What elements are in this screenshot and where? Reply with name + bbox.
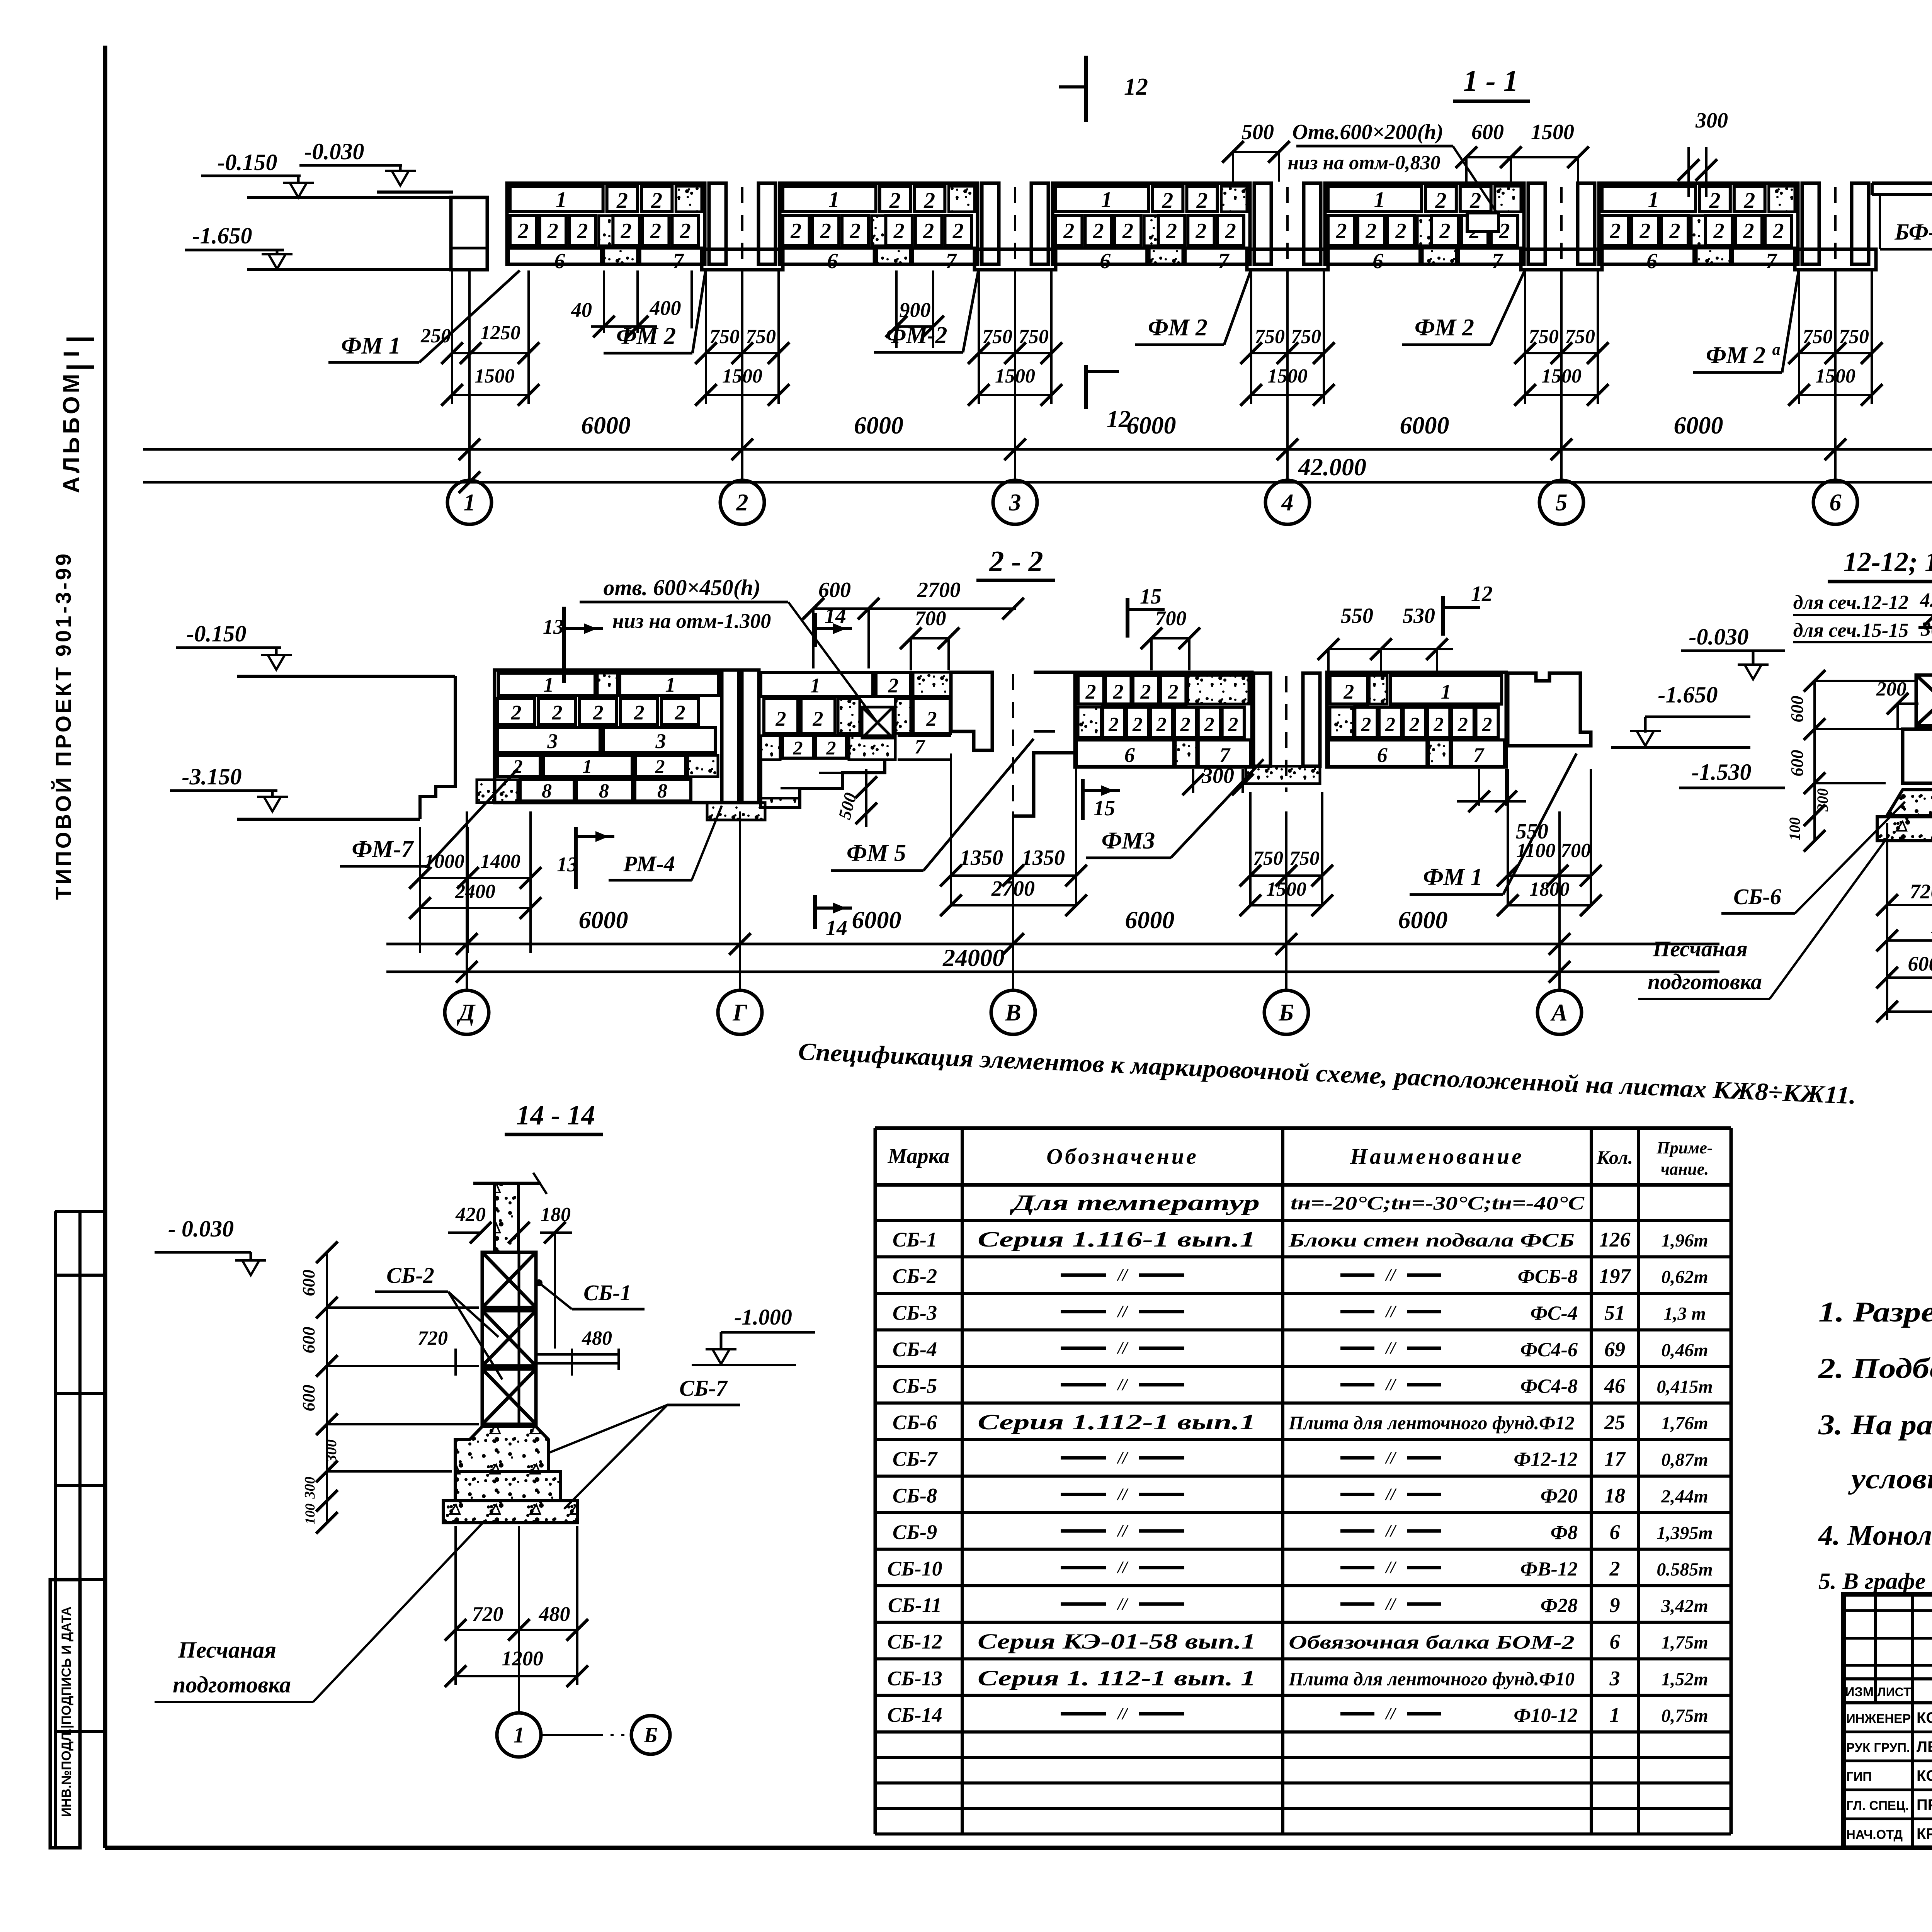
svg-text:2: 2 xyxy=(849,219,861,243)
blocks X (14-14) xyxy=(482,1252,536,1308)
svg-text:ФСБ-8: ФСБ-8 xyxy=(1518,1266,1578,1288)
svg-text:24000: 24000 xyxy=(942,944,1005,971)
svg-text:0,62т: 0,62т xyxy=(1661,1267,1708,1287)
column stub (14-14) xyxy=(495,1183,519,1252)
svg-text:3: 3 xyxy=(547,730,558,753)
svg-text:-3.150: -3.150 xyxy=(182,764,242,789)
svg-text:3. На разрезах 1-1; 2-2 букв: 3. На разрезах 1-1; 2-2 буквенные индекс… xyxy=(1818,1409,1932,1441)
svg-text:1,395т: 1,395т xyxy=(1656,1523,1713,1543)
dim 900 under bay 2-3 xyxy=(895,270,898,348)
svg-text:2700: 2700 xyxy=(917,578,961,602)
block SB-2 (12-12) xyxy=(1903,729,1932,783)
svg-text:750: 750 xyxy=(1253,847,1283,869)
dim chain 1100-700-1800 at axis A xyxy=(1507,769,1509,905)
svg-text:7: 7 xyxy=(1473,743,1485,767)
svg-text:ФМ 2: ФМ 2 xyxy=(616,323,676,349)
opening rect in bay 4-5 xyxy=(1467,213,1498,231)
dimension line 42.000 xyxy=(143,481,1932,484)
axis line В (2-2) xyxy=(1012,811,1014,990)
pier footing pad at axis x=4041 xyxy=(1521,249,1602,270)
svg-text:СБ-1: СБ-1 xyxy=(583,1280,631,1305)
svg-text:750: 750 xyxy=(982,326,1012,348)
pier at axis B (section 2-2) xyxy=(1253,673,1270,766)
svg-text:750: 750 xyxy=(1289,847,1320,869)
svg-text:51: 51 xyxy=(1604,1301,1625,1324)
svg-text://: // xyxy=(1385,1265,1397,1284)
svg-text:Д: Д xyxy=(457,1000,476,1026)
title block signature rows xyxy=(1844,1731,1932,1733)
footing slab 6 xyxy=(1600,248,1694,264)
svg-text:2: 2 xyxy=(621,219,632,243)
svg-text:12: 12 xyxy=(1471,582,1493,606)
svg-text:4. Монолитные участки стен: 4. Монолитные участки стен выполнять из … xyxy=(1818,1520,1932,1551)
dim chain 250-1250-1500 at axis 1 xyxy=(451,270,453,404)
svg-text:2: 2 xyxy=(889,188,901,213)
svg-text:6000: 6000 xyxy=(579,906,628,934)
base slab (14-14) xyxy=(443,1501,577,1523)
svg-text:ФМ 1: ФМ 1 xyxy=(1423,864,1483,890)
svg-text:2: 2 xyxy=(1336,219,1347,243)
footing slab 7 xyxy=(1733,248,1796,264)
svg-text:отв. 600×450(h): отв. 600×450(h) xyxy=(604,575,761,600)
axis circle 6 xyxy=(1813,480,1857,524)
svg-text:чание.: чание. xyxy=(1661,1160,1709,1179)
svg-text:1: 1 xyxy=(583,755,592,777)
svg-text:2,44т: 2,44т xyxy=(1661,1486,1708,1507)
svg-text:40: 40 xyxy=(571,298,592,321)
footing monolith patch xyxy=(604,248,638,264)
blocks 2 (course 1) xyxy=(607,186,638,212)
svg-text:1400: 1400 xyxy=(480,850,520,872)
svg-text:КРАСАВИН: КРАСАВИН xyxy=(1917,1825,1932,1842)
axis circle 4 xyxy=(1265,480,1310,524)
svg-text:2: 2 xyxy=(593,701,604,724)
svg-text:ФМ3: ФМ3 xyxy=(1102,828,1155,854)
svg-text:ИЗМ: ИЗМ xyxy=(1845,1685,1874,1699)
svg-text:6000: 6000 xyxy=(1125,906,1175,934)
dim chain 750-750-1500 at axis 4750 xyxy=(1798,270,1800,404)
dim 500 vertical xyxy=(865,769,867,827)
svg-text:Серия 1.116-1 вып.1: Серия 1.116-1 вып.1 xyxy=(978,1228,1256,1252)
svg-text:6000: 6000 xyxy=(1400,412,1449,439)
svg-text:9: 9 xyxy=(1610,1594,1620,1617)
base slab (12-12) xyxy=(1877,817,1932,841)
axis circle 3 xyxy=(993,480,1037,524)
svg-text:750: 750 xyxy=(1291,326,1321,348)
svg-text:СБ-2: СБ-2 xyxy=(893,1265,937,1288)
svg-text:СБ-6: СБ-6 xyxy=(893,1411,937,1434)
axis V dash centerline xyxy=(1012,674,1014,811)
svg-text://: // xyxy=(1117,1375,1129,1394)
svg-text:300: 300 xyxy=(1695,109,1728,133)
svg-text:Отв.600×200(h): Отв.600×200(h) xyxy=(1292,120,1443,144)
axis line 6 xyxy=(1834,270,1837,480)
svg-text:-1.000: -1.000 xyxy=(734,1304,792,1330)
svg-text:низ на отм-1.300: низ на отм-1.300 xyxy=(612,609,771,633)
svg-text:25: 25 xyxy=(1604,1411,1625,1434)
svg-text:ФМ-2: ФМ-2 xyxy=(886,322,947,349)
svg-text:СБ-1: СБ-1 xyxy=(893,1228,937,1251)
svg-text:КОЗЛОВ: КОЗЛОВ xyxy=(1917,1709,1932,1726)
svg-text:ПРОНИН: ПРОНИН xyxy=(1917,1796,1932,1813)
svg-text:2: 2 xyxy=(1772,219,1784,243)
svg-text:1800: 1800 xyxy=(1529,878,1570,900)
svg-text:6000: 6000 xyxy=(1127,412,1176,439)
monolith patch (course 1) xyxy=(949,186,975,212)
axis circle 2 xyxy=(720,480,764,524)
middle panel course 1 xyxy=(761,672,873,696)
svg-text:АЛЬБОМ: АЛЬБОМ xyxy=(58,371,84,493)
shallow wall panel bay V-B outline xyxy=(1075,672,1252,767)
svg-text:6: 6 xyxy=(1124,743,1135,767)
footing monolith patch xyxy=(1422,248,1456,264)
svg-text:1,76т: 1,76т xyxy=(1661,1413,1708,1434)
svg-text:480: 480 xyxy=(539,1602,570,1626)
svg-text:6: 6 xyxy=(1100,249,1111,273)
margin inventory table xyxy=(54,1211,57,1848)
axis line 3 xyxy=(1014,270,1016,480)
svg-text:2: 2 xyxy=(888,674,899,697)
monolith patch (course 1) xyxy=(1221,186,1247,212)
footing trapezoids (14-14) xyxy=(455,1427,549,1471)
svg-text:2: 2 xyxy=(1482,714,1492,736)
svg-text:12: 12 xyxy=(1124,74,1148,100)
svg-text:2: 2 xyxy=(1669,219,1680,243)
svg-text:низ на отм-0,830: низ на отм-0,830 xyxy=(1287,152,1440,174)
svg-text:6: 6 xyxy=(554,249,565,273)
axis circle 5 xyxy=(1539,480,1583,524)
dim chain 750-750-1500 at axis B (2-2) xyxy=(1249,792,1252,905)
svg-text:2 - 2: 2 - 2 xyxy=(989,545,1043,578)
svg-text:720: 720 xyxy=(1910,880,1932,903)
footing monolith patch xyxy=(1696,248,1730,264)
svg-text:Серия 1. 112-1 вып. 1: Серия 1. 112-1 вып. 1 xyxy=(978,1666,1256,1690)
svg-text:2: 2 xyxy=(1343,680,1354,703)
svg-text:750: 750 xyxy=(1803,326,1833,348)
svg-text:2: 2 xyxy=(1122,219,1133,243)
svg-text:2: 2 xyxy=(1180,714,1190,736)
svg-text:2: 2 xyxy=(1609,1557,1620,1580)
svg-text:300: 300 xyxy=(1920,618,1932,640)
svg-text:2: 2 xyxy=(650,219,661,243)
svg-text:2: 2 xyxy=(1610,219,1621,243)
svg-text:РУК ГРУП.: РУК ГРУП. xyxy=(1846,1740,1910,1755)
monolith patch (course 1) xyxy=(1769,186,1795,212)
svg-text:1: 1 xyxy=(556,187,567,212)
svg-text:600: 600 xyxy=(299,1327,318,1354)
course 2 blocks 2 xyxy=(1328,216,1355,246)
block SB-1 (12-12) xyxy=(1916,675,1932,726)
svg-text:46: 46 xyxy=(1604,1374,1625,1398)
block 1 (course 1) xyxy=(783,186,876,212)
svg-text:1: 1 xyxy=(464,490,476,516)
svg-text:Для температур: Для температур xyxy=(1010,1190,1260,1215)
svg-text:8: 8 xyxy=(657,780,667,802)
svg-text:1,75т: 1,75т xyxy=(1661,1633,1708,1653)
svg-text:420: 420 xyxy=(455,1204,486,1226)
svg-text:Кол.: Кол. xyxy=(1596,1146,1633,1168)
svg-text:2: 2 xyxy=(826,737,836,759)
svg-text:6: 6 xyxy=(1610,1630,1620,1653)
svg-text://: // xyxy=(1117,1265,1129,1284)
title block left table top rows xyxy=(1844,1609,1932,1612)
svg-text:ФМ-7: ФМ-7 xyxy=(352,836,414,862)
pier piece right of axis V xyxy=(1013,672,1075,816)
svg-text:1. Разрезы замаркированы на: 1. Разрезы замаркированы на листе КЖ-4. xyxy=(1818,1296,1932,1328)
svg-text:ФМ 2: ФМ 2 xyxy=(1706,342,1765,369)
svg-text://: // xyxy=(1385,1521,1397,1540)
svg-text:7: 7 xyxy=(1218,249,1230,273)
axis line А (2-2) xyxy=(1558,811,1561,990)
block 1 (course 1) xyxy=(1328,186,1422,212)
foundation pier at axis x=2627 (cut cross-wall) xyxy=(982,183,999,264)
svg-text:ФС4-6: ФС4-6 xyxy=(1520,1339,1578,1361)
svg-text:6: 6 xyxy=(1610,1520,1620,1544)
svg-text:6: 6 xyxy=(1646,249,1657,273)
svg-text:750: 750 xyxy=(1019,326,1049,348)
svg-text:Ф28: Ф28 xyxy=(1541,1595,1578,1617)
svg-text:8: 8 xyxy=(542,780,552,802)
svg-text:600: 600 xyxy=(1787,696,1807,723)
svg-text:2: 2 xyxy=(1435,188,1446,213)
svg-text:7: 7 xyxy=(673,249,684,273)
axis circle А (2-2) xyxy=(1537,990,1582,1034)
svg-text:СБ-13: СБ-13 xyxy=(887,1667,942,1690)
svg-text:Обозначение: Обозначение xyxy=(1046,1144,1199,1169)
margin strip INV No label box xyxy=(50,1580,80,1848)
svg-text:2: 2 xyxy=(1498,219,1510,243)
svg-text:750: 750 xyxy=(746,326,776,348)
svg-text:12-12; 15-15: 12-12; 15-15 xyxy=(1844,546,1932,577)
axis line 1 xyxy=(468,270,471,480)
footing slab 6 xyxy=(1054,248,1147,264)
svg-text:1,52т: 1,52т xyxy=(1661,1669,1708,1689)
svg-text:1: 1 xyxy=(1610,1703,1620,1726)
svg-text:1,3 т: 1,3 т xyxy=(1663,1303,1706,1324)
dimension line 24000 (2-2) xyxy=(386,971,1719,973)
svg-text:2: 2 xyxy=(1195,219,1206,243)
svg-text:ФМ 2: ФМ 2 xyxy=(1148,315,1207,341)
svg-text:17: 17 xyxy=(1604,1447,1626,1471)
svg-text:1500: 1500 xyxy=(1531,120,1574,144)
svg-text:2: 2 xyxy=(1093,219,1104,243)
svg-text:2: 2 xyxy=(820,219,831,243)
dimension line 6000 row (2-2) xyxy=(386,943,1719,946)
svg-text:Приме-: Приме- xyxy=(1656,1138,1713,1157)
end wall at axis A (section 2-2) xyxy=(1508,673,1591,746)
axis circle 1 xyxy=(447,480,492,524)
blocks 2 (course 1) xyxy=(1699,186,1730,212)
svg-text:750: 750 xyxy=(709,326,740,348)
section cut flag 15 (top) xyxy=(1126,598,1129,638)
svg-text:Ф8: Ф8 xyxy=(1551,1522,1578,1544)
svg-text://: // xyxy=(1117,1558,1129,1577)
beam BF-1 bay 6-7 xyxy=(1872,182,1932,185)
svg-text:а: а xyxy=(1772,341,1781,359)
svg-text:300: 300 xyxy=(1814,788,1831,812)
foundation pier at axis x=4750 (cut cross-wall) xyxy=(1802,183,1819,264)
svg-text:СБ-14: СБ-14 xyxy=(887,1703,942,1726)
monolith patch (course 1) xyxy=(676,186,702,212)
svg-text:300: 300 xyxy=(302,1477,318,1499)
svg-text:500: 500 xyxy=(1242,120,1274,144)
svg-text:6000: 6000 xyxy=(581,412,631,439)
svg-text:2: 2 xyxy=(675,701,685,724)
svg-text:2: 2 xyxy=(923,219,934,243)
svg-text:2: 2 xyxy=(1112,680,1123,703)
block 1 (course 1) xyxy=(510,186,603,212)
pier footing pad at axis x=4750 xyxy=(1795,249,1876,270)
pier piece left of axis V xyxy=(951,672,992,750)
svg-text://: // xyxy=(1385,1338,1397,1357)
svg-text:700: 700 xyxy=(1561,840,1591,862)
blocks 2 (course 1) xyxy=(880,186,910,212)
svg-text:1 - 1: 1 - 1 xyxy=(1463,64,1519,97)
wall panel bay 3-4: outline xyxy=(1053,183,1250,264)
vertical dim chain (14-14) xyxy=(326,1252,328,1523)
dim 1350/1350/2700 below axis V xyxy=(950,753,952,905)
svg-text:6000: 6000 xyxy=(1674,412,1723,439)
svg-text:2: 2 xyxy=(813,707,823,730)
svg-text:6: 6 xyxy=(1372,249,1383,273)
svg-text:42.000: 42.000 xyxy=(1298,453,1366,481)
course 2 blocks 2 xyxy=(510,216,537,246)
svg-text:197: 197 xyxy=(1599,1265,1631,1288)
svg-text:2: 2 xyxy=(1132,714,1143,736)
svg-text:СБ-5: СБ-5 xyxy=(893,1374,937,1398)
svg-text:1350: 1350 xyxy=(1022,846,1065,870)
course 2 blocks 2 xyxy=(1602,216,1629,246)
svg-text:РМ-4: РМ-4 xyxy=(623,851,675,876)
section cut flag 12 (top) xyxy=(1084,56,1088,122)
svg-text:3: 3 xyxy=(1609,1667,1620,1690)
svg-text:2: 2 xyxy=(511,701,522,724)
svg-text:720: 720 xyxy=(472,1602,503,1626)
deep wall course 2 blocks 2 xyxy=(498,698,535,724)
axis line 2 xyxy=(741,270,743,480)
svg-text:1: 1 xyxy=(810,674,821,697)
svg-text:1250: 1250 xyxy=(480,322,520,344)
svg-text:6: 6 xyxy=(1830,490,1842,516)
svg-text:1: 1 xyxy=(828,187,840,212)
pier footing pad at axis x=1921 xyxy=(702,249,783,270)
deep wall course 1 blocks 1 xyxy=(498,673,595,696)
svg-text:750: 750 xyxy=(1529,326,1559,348)
svg-text:В: В xyxy=(1005,1000,1021,1026)
svg-text:Марка: Марка xyxy=(888,1144,950,1168)
svg-text:2. Подбетонка на разрезах: 2. Подбетонка на разрезах условно не пок… xyxy=(1818,1353,1932,1384)
svg-text:720: 720 xyxy=(418,1327,448,1349)
section cut flag 14 (bottom) xyxy=(813,895,817,929)
svg-text:- 0.030: - 0.030 xyxy=(168,1216,234,1242)
dim 720/480 (14-14 upper) xyxy=(454,1349,457,1376)
dimension line 6000 row xyxy=(143,448,1932,451)
svg-text:300: 300 xyxy=(322,1439,340,1463)
svg-text:3: 3 xyxy=(655,730,666,753)
svg-text:2: 2 xyxy=(1385,714,1395,736)
foundation pier at axis x=3332 (cut cross-wall) xyxy=(1254,183,1271,264)
deep wall course 5 blocks 8 with left footing offset xyxy=(477,780,495,803)
svg-text:2: 2 xyxy=(1166,219,1177,243)
svg-text:Б: Б xyxy=(643,1723,658,1747)
svg-text:СБ-12: СБ-12 xyxy=(887,1630,942,1653)
svg-text:2: 2 xyxy=(923,188,935,213)
footing monolith patch xyxy=(1149,248,1183,264)
section cut flag 12 (bottom) xyxy=(1084,365,1088,409)
svg-text:2: 2 xyxy=(1167,680,1178,703)
svg-text:7: 7 xyxy=(1766,249,1777,273)
svg-text:-0.030: -0.030 xyxy=(1689,624,1749,650)
svg-text:250: 250 xyxy=(420,325,451,347)
axis circle В (2-2) xyxy=(991,990,1035,1034)
svg-text:1100: 1100 xyxy=(1516,840,1555,862)
svg-text:ИНВ.№ПОДЛ.|ПОДПИСЬ И ДАТА: ИНВ.№ПОДЛ.|ПОДПИСЬ И ДАТА xyxy=(59,1607,74,1817)
svg-text:СБ-11: СБ-11 xyxy=(888,1594,942,1617)
svg-text:СБ-3: СБ-3 xyxy=(893,1301,937,1324)
footing slab 6 xyxy=(781,248,874,264)
svg-text:7: 7 xyxy=(946,249,957,273)
svg-text:2: 2 xyxy=(1709,188,1720,213)
svg-text:Песчаная: Песчаная xyxy=(178,1637,276,1663)
svg-text:2: 2 xyxy=(736,490,748,516)
svg-text:2: 2 xyxy=(1639,219,1651,243)
svg-text:2: 2 xyxy=(776,707,786,730)
svg-text:2: 2 xyxy=(1458,714,1468,736)
svg-text:КОССКО: КОССКО xyxy=(1917,1767,1932,1784)
svg-text:2: 2 xyxy=(1085,680,1096,703)
footing slab 6 xyxy=(509,248,602,264)
svg-text:15: 15 xyxy=(1094,796,1115,820)
svg-text:НАЧ.ОТД: НАЧ.ОТД xyxy=(1846,1827,1903,1842)
svg-text:ФС4-8: ФС4-8 xyxy=(1520,1376,1578,1398)
svg-text:2: 2 xyxy=(616,188,628,213)
end wall at axis 1 (cut) xyxy=(451,197,487,270)
svg-text:2: 2 xyxy=(1409,714,1420,736)
svg-text:3: 3 xyxy=(1009,490,1021,516)
svg-text:ТИПОВОЙ ПРОЕКТ 901-3-99: ТИПОВОЙ ПРОЕКТ 901-3-99 xyxy=(51,551,75,900)
svg-text:2: 2 xyxy=(952,219,964,243)
svg-text:1350: 1350 xyxy=(960,846,1003,870)
svg-text:СБ-9: СБ-9 xyxy=(893,1520,937,1544)
middle panel course 2 with X-opening xyxy=(764,699,798,733)
dim chain 750-750-1500 at axis 4041 xyxy=(1524,270,1526,404)
middle panel steps down xyxy=(761,760,885,808)
svg-text:Г: Г xyxy=(732,1000,747,1026)
svg-text://: // xyxy=(1117,1521,1129,1540)
svg-text://: // xyxy=(1385,1485,1397,1504)
svg-text:600: 600 xyxy=(1787,750,1807,777)
svg-text:ЛЕВИНА: ЛЕВИНА xyxy=(1917,1738,1932,1755)
svg-text:4: 4 xyxy=(1281,490,1294,516)
svg-text:Ф10-12: Ф10-12 xyxy=(1514,1704,1578,1726)
svg-text:8: 8 xyxy=(599,780,609,802)
wall panel bay 4-5: outline xyxy=(1325,183,1524,264)
svg-text:ГЛ. СПЕЦ.: ГЛ. СПЕЦ. xyxy=(1846,1798,1909,1813)
svg-text:1: 1 xyxy=(544,673,554,696)
svg-text:2: 2 xyxy=(1140,680,1151,703)
shallow wall panel bay B-A outline xyxy=(1327,672,1506,767)
svg-text:2400: 2400 xyxy=(455,881,495,903)
svg-text:100: 100 xyxy=(1786,817,1803,840)
svg-text:-1.530: -1.530 xyxy=(1692,759,1752,785)
footing monolith patch xyxy=(877,248,910,264)
deep wall course 3 blocks 3 xyxy=(498,728,600,752)
svg-text:126: 126 xyxy=(1599,1228,1631,1251)
svg-text:2: 2 xyxy=(1204,714,1214,736)
svg-text:2: 2 xyxy=(893,219,905,243)
svg-text:18: 18 xyxy=(1604,1484,1625,1507)
pier at axis G xyxy=(722,670,739,803)
